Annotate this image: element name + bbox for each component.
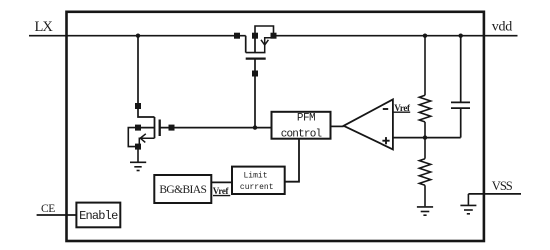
svg-text:LX: LX bbox=[35, 19, 54, 35]
block: Enable box bbox=[76, 203, 120, 228]
ground symbol under R2 bbox=[417, 207, 433, 215]
wire: PFM bottom to Limit current bbox=[285, 139, 299, 182]
transistor M2 body-source loop bbox=[128, 128, 138, 147]
svg-text:vdd: vdd bbox=[492, 20, 512, 35]
wire: M1 gate stub down bbox=[254, 59, 256, 128]
transistor M1 body-source loop bbox=[255, 26, 274, 36]
wire: Vref underline stub 2 bbox=[213, 195, 230, 197]
resistor R2 bbox=[419, 138, 430, 207]
node: junction dot on LX rail bbox=[136, 34, 140, 38]
op-amp minus sign bbox=[383, 108, 388, 110]
capacitor C1 top wire bbox=[460, 36, 462, 102]
transistor M1 channel bar bbox=[246, 52, 266, 54]
svg-text:PFM: PFM bbox=[297, 113, 315, 125]
svg-text:VSS: VSS bbox=[492, 179, 513, 193]
transistor M1 gate bar bbox=[246, 57, 266, 59]
transistor M1 left leg wire bbox=[245, 36, 247, 53]
node: junction dot gate net / M1 gate bbox=[253, 125, 257, 129]
op-amp U1 comparator triangle bbox=[344, 99, 393, 149]
ground symbol under M2 bbox=[130, 147, 146, 171]
capacitor C1 plates bbox=[451, 102, 470, 108]
node: square dot M1 body bbox=[252, 33, 258, 39]
ground symbol at VSS bbox=[460, 194, 476, 214]
transistor M2 gate bar bbox=[159, 120, 161, 137]
wire: LX rail left segment bbox=[29, 35, 246, 37]
transistor M1 source leg with arrow bbox=[261, 38, 274, 53]
block: Limit current box bbox=[232, 167, 285, 194]
svg-text:BG&BIAS: BG&BIAS bbox=[159, 184, 206, 196]
op-amp plus sign bbox=[382, 137, 389, 144]
wire: VSS rail bbox=[468, 193, 521, 195]
node: junction dot vdd/R1 bbox=[423, 34, 427, 38]
svg-text:control: control bbox=[281, 129, 322, 141]
node: square dot on M1 gate stub bbox=[252, 71, 258, 77]
node: square dot on gate net bbox=[169, 125, 175, 131]
block: PFM control box bbox=[272, 112, 331, 139]
node: junction dot vdd/C1 bbox=[459, 34, 463, 38]
transistor M2 channel bar bbox=[154, 117, 156, 138]
wire: BG&BIAS to Limit current bbox=[211, 181, 232, 183]
node: square dot M2 body bbox=[135, 125, 141, 131]
block: BG&BIAS box bbox=[154, 175, 211, 203]
transistor M1 body leg bbox=[254, 36, 256, 53]
wire: comparator output to PFM bbox=[331, 125, 344, 127]
resistor R1 bbox=[419, 36, 430, 138]
wire: gate net M2 to PFM control bbox=[160, 127, 272, 129]
svg-text:current: current bbox=[240, 183, 274, 192]
node: square dot M1 source bbox=[271, 33, 277, 39]
transistor M2 body wire bbox=[138, 127, 155, 129]
node: square dot M2 drain bbox=[135, 103, 141, 109]
wire: LX dot down to M2 drain bbox=[137, 36, 139, 106]
svg-text:Limit: Limit bbox=[243, 172, 267, 181]
IC outline border bbox=[67, 12, 484, 241]
node: square junction left of M1 bbox=[234, 33, 240, 39]
wire: comparator plus input to divider bbox=[393, 137, 461, 139]
wire: Vref underline stub bbox=[394, 111, 411, 113]
wire: CE pin to Enable bbox=[37, 214, 77, 216]
transistor M2 source leg with arrow bbox=[139, 134, 154, 147]
wire: vdd rail right segment bbox=[274, 35, 518, 37]
svg-text:Enable: Enable bbox=[79, 209, 118, 223]
capacitor C1 bottom wire bbox=[460, 109, 462, 138]
svg-text:CE: CE bbox=[41, 203, 55, 215]
node: square dot M2 source bbox=[135, 144, 141, 150]
node: junction dot divider midpoint bbox=[423, 135, 427, 139]
svg-text:Vref: Vref bbox=[213, 186, 230, 196]
transistor M2 drain bend bbox=[138, 106, 155, 117]
